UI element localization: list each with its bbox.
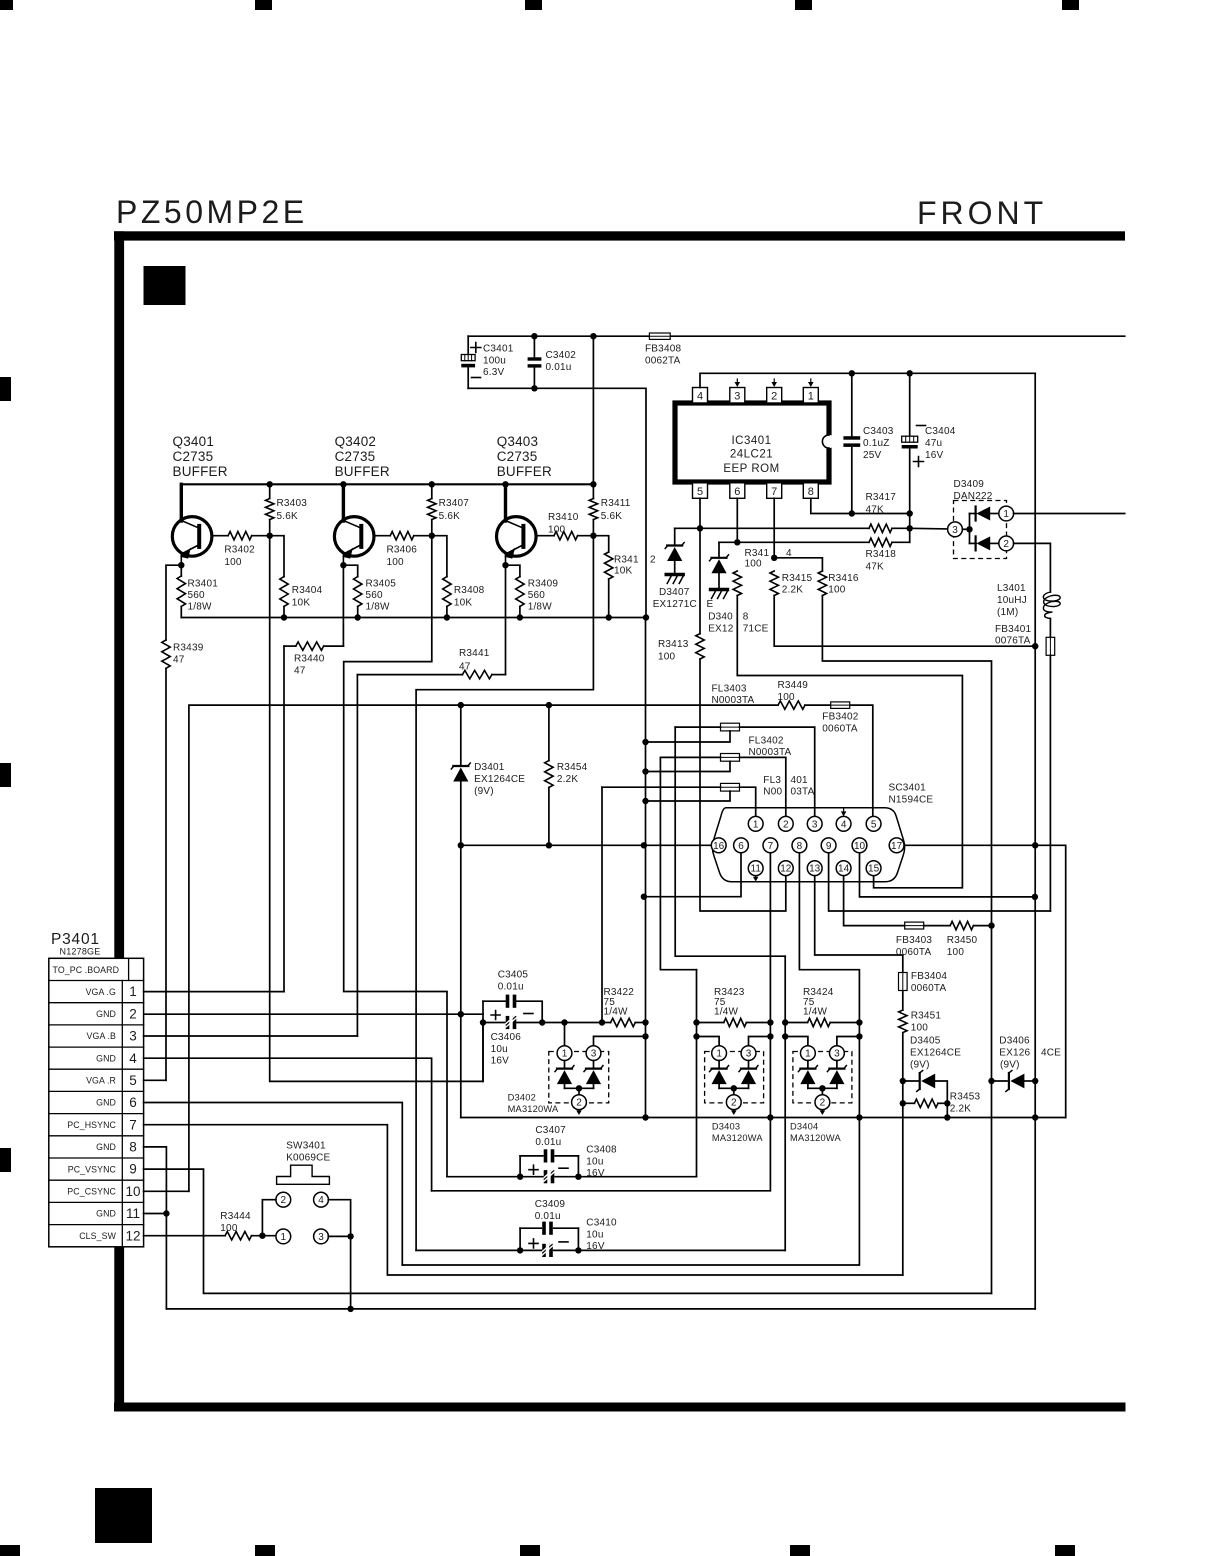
SC3401 pin 15 — [866, 861, 881, 876]
SC3401 pin 5 — [866, 816, 881, 831]
svg-text:C3405: C3405 — [498, 970, 529, 981]
SC3401 pin 9 — [821, 838, 836, 853]
wire P3401 pin4 GND — [144, 1058, 432, 1191]
ferrite bead FB3408 — [649, 333, 670, 339]
svg-text:14: 14 — [838, 864, 850, 875]
wire supply tap to Q rail — [592, 336, 594, 484]
svg-text:0062TA: 0062TA — [645, 355, 681, 366]
wire filter3-left to R3422 cell — [601, 787, 603, 1022]
resistor R3449 — [778, 701, 805, 709]
svg-text:5.6K: 5.6K — [601, 511, 623, 522]
svg-text:0.1uZ: 0.1uZ — [863, 438, 890, 449]
svg-text:10: 10 — [854, 841, 866, 852]
svg-text:R3409: R3409 — [528, 579, 559, 590]
wire SC pin8 to R3424 right — [402, 853, 859, 1265]
wire R3423 left vertical — [696, 970, 698, 1177]
svg-text:100: 100 — [658, 652, 676, 663]
svg-text:FL3402: FL3402 — [749, 736, 784, 747]
svg-text:10K: 10K — [292, 598, 311, 609]
svg-text:47: 47 — [294, 666, 306, 677]
svg-text:1: 1 — [562, 1049, 568, 1060]
SC3401 pin 13 — [807, 861, 822, 876]
wire R3441 to P3401 pin3 — [356, 675, 358, 1036]
svg-text:3: 3 — [812, 819, 818, 830]
svg-text:16V: 16V — [491, 1056, 510, 1067]
svg-text:1/4W: 1/4W — [714, 1007, 739, 1018]
svg-text:0.01u: 0.01u — [498, 982, 524, 993]
resistor R3411 — [592, 484, 594, 498]
svg-text:FL3403: FL3403 — [712, 684, 747, 695]
svg-text:VGA .B: VGA .B — [87, 1031, 116, 1041]
svg-text:R3453: R3453 — [950, 1092, 981, 1103]
connector P3401 table — [49, 958, 144, 1247]
svg-text:(9V): (9V) — [1000, 1060, 1020, 1071]
svg-text:03TA: 03TA — [791, 787, 815, 798]
resistor R3440 (VGA.G series) — [342, 565, 344, 646]
svg-text:3: 3 — [129, 1029, 137, 1044]
svg-text:1: 1 — [1003, 509, 1009, 520]
IC3401 bottom pin 7 — [767, 483, 782, 499]
svg-text:1/8W: 1/8W — [366, 602, 391, 613]
svg-text:6: 6 — [738, 841, 744, 852]
wire P3401 pin5 VGA.R — [144, 1079, 166, 1081]
svg-text:0.01u: 0.01u — [546, 362, 572, 373]
svg-text:CLS_SW: CLS_SW — [79, 1231, 116, 1241]
svg-text:2.2K: 2.2K — [557, 774, 579, 785]
svg-text:13: 13 — [809, 864, 821, 875]
svg-text:100: 100 — [745, 559, 763, 570]
wire FL filter2 left — [660, 756, 720, 758]
emitter node Q3402 — [340, 562, 346, 568]
svg-text:R3406: R3406 — [387, 545, 418, 556]
resistor R3401 — [180, 565, 182, 576]
svg-text:BUFFER: BUFFER — [335, 464, 390, 479]
svg-text:PC_CSYNC: PC_CSYNC — [67, 1187, 116, 1197]
wire R3413 to SC pin12 (wire B) — [700, 659, 786, 911]
bottom rail — [181, 617, 646, 619]
resistor R3412 — [593, 536, 608, 552]
svg-text:D3403: D3403 — [712, 1122, 740, 1132]
svg-text:R341: R341 — [745, 548, 770, 559]
svg-text:R3401: R3401 — [188, 579, 219, 590]
svg-text:2: 2 — [771, 391, 777, 403]
wire P3401 pin1 VGA.G — [144, 991, 284, 993]
wire C3407 row — [447, 1176, 543, 1178]
svg-text:4: 4 — [697, 391, 703, 403]
wire PC_CSYNC to SC pin5 — [189, 705, 778, 1191]
svg-text:3: 3 — [591, 1049, 597, 1060]
svg-text:R3454: R3454 — [557, 762, 588, 773]
filter FL3402 (top bead) — [721, 723, 740, 731]
svg-text:15: 15 — [868, 864, 880, 875]
svg-text:2: 2 — [650, 555, 656, 566]
svg-text:PC_HSYNC: PC_HSYNC — [67, 1120, 116, 1130]
wire SC pin7 down to gnd bus & P3401 pin4 gnd — [432, 853, 771, 1191]
svg-text:100: 100 — [911, 1022, 929, 1033]
svg-text:(1M): (1M) — [997, 607, 1018, 618]
wire IC pin5 net / SDA — [699, 498, 701, 528]
svg-text:R3441: R3441 — [459, 648, 490, 659]
diode array D3402 MA3120WA — [564, 1023, 566, 1046]
wire SC pin14 to FB3403 — [844, 876, 905, 926]
svg-text:2: 2 — [1003, 539, 1009, 550]
wire FL filter3 to SC pin1 — [740, 787, 756, 816]
svg-text:1: 1 — [753, 819, 759, 830]
zener diode D3407 — [674, 528, 676, 545]
node dots C3401/C3402 — [531, 333, 537, 339]
gnd bus vertical x=645.5 — [645, 618, 647, 1118]
IC3401 top pin 2 — [767, 388, 782, 404]
wire P3401 pin2 gnd feed — [144, 1013, 483, 1015]
svg-text:GND: GND — [96, 1209, 116, 1219]
SC3401 pin 1 — [748, 816, 763, 831]
svg-text:25V: 25V — [863, 450, 882, 461]
svg-text:GND: GND — [96, 1142, 116, 1152]
wire SC pin16 row — [461, 844, 711, 846]
SC3401 pin 16 — [711, 838, 726, 853]
svg-text:EEP ROM: EEP ROM — [723, 463, 779, 475]
capacitor C3405 — [483, 1000, 505, 1002]
SC3401 pin 11 — [748, 861, 763, 876]
wire SW3401 pin4/pin3 to gnd bus — [328, 1200, 350, 1309]
registration marks bottom edge — [95, 1488, 152, 1543]
svg-text:2: 2 — [731, 1098, 737, 1109]
svg-text:7: 7 — [129, 1117, 137, 1132]
svg-text:0076TA: 0076TA — [995, 636, 1031, 647]
svg-text:47u: 47u — [925, 438, 942, 449]
svg-text:0.01u: 0.01u — [535, 1137, 561, 1148]
gnd bus y=1117.5 — [461, 1117, 1066, 1119]
wire SC pin10 to gnd vertical — [860, 853, 1036, 897]
svg-text:47: 47 — [173, 655, 185, 666]
svg-text:R3402: R3402 — [224, 545, 255, 556]
wire D3409 pin1 to border — [1014, 513, 1125, 515]
wire FL filter2 to SC pin2 — [740, 757, 786, 816]
section marker square — [144, 266, 186, 305]
svg-text:560: 560 — [366, 590, 384, 601]
svg-text:100: 100 — [778, 692, 796, 703]
SC3401 pin 7 — [763, 838, 778, 853]
resistor R3403 — [269, 484, 271, 498]
svg-text:EX1271C: EX1271C — [653, 599, 697, 610]
wire Q3402 base node down to jog — [344, 536, 447, 1177]
svg-text:5: 5 — [129, 1073, 137, 1088]
svg-text:11: 11 — [126, 1206, 140, 1221]
svg-text:47K: 47K — [866, 562, 885, 573]
resistor R3402 — [212, 535, 228, 537]
gnd bottom bus — [166, 1308, 1035, 1310]
capacitor C3401 — [467, 336, 469, 354]
svg-text:1/8W: 1/8W — [188, 602, 213, 613]
svg-text:10u: 10u — [586, 1229, 603, 1240]
SC3401 pin 12 — [778, 861, 793, 876]
resistor R3450 — [950, 921, 973, 929]
svg-text:R3449: R3449 — [778, 680, 809, 691]
svg-text:0060TA: 0060TA — [822, 724, 858, 735]
svg-text:D3406: D3406 — [999, 1036, 1030, 1047]
svg-text:2.2K: 2.2K — [950, 1103, 972, 1114]
wire FL filter1 gnd — [646, 731, 731, 742]
svg-text:FL3: FL3 — [763, 775, 781, 786]
svg-text:C3404: C3404 — [925, 426, 956, 437]
svg-text:D3405: D3405 — [910, 1036, 941, 1047]
svg-text:100: 100 — [220, 1223, 238, 1234]
svg-text:R3415: R3415 — [782, 573, 813, 584]
svg-text:C3408: C3408 — [586, 1145, 617, 1156]
svg-text:100: 100 — [548, 525, 566, 536]
SC3401 pin 10 — [852, 838, 867, 853]
resistor R3422 — [602, 1022, 611, 1024]
wire C3409 row — [416, 1249, 541, 1251]
svg-text:C3401: C3401 — [483, 344, 514, 355]
svg-text:R3440: R3440 — [294, 654, 325, 665]
svg-text:0060TA: 0060TA — [911, 983, 947, 994]
wire filter1-left to R3424 cell — [675, 727, 785, 956]
wire P3401 pin7 PC_HSYNC — [144, 1125, 903, 1275]
capacitors C3409/C3410 — [519, 1228, 521, 1250]
inductor L3401 — [1043, 592, 1060, 619]
svg-text:7: 7 — [768, 841, 774, 852]
svg-text:GND: GND — [96, 1098, 116, 1108]
svg-text:47K: 47K — [866, 505, 885, 516]
capacitor C3403 — [851, 373, 853, 436]
svg-text:D3407: D3407 — [659, 587, 690, 598]
svg-text:GND: GND — [96, 1009, 116, 1019]
IC3401 bottom pin 6 — [730, 483, 745, 499]
svg-text:R3407: R3407 — [439, 498, 470, 509]
svg-text:EX1264CE: EX1264CE — [910, 1048, 961, 1059]
svg-text:DAN222: DAN222 — [954, 491, 993, 502]
svg-text:D340: D340 — [708, 612, 733, 623]
resistor R3407 — [431, 484, 433, 498]
svg-text:R3439: R3439 — [173, 643, 204, 654]
wire IC pin6 to SC pin15 — [737, 596, 962, 888]
svg-text:IC3401: IC3401 — [731, 435, 771, 447]
svg-text:R3408: R3408 — [454, 585, 485, 596]
resistor R3405 — [343, 565, 357, 576]
filter (middle bead) — [721, 754, 740, 762]
connector SC3401 outline — [712, 808, 904, 882]
resistor R3418 — [869, 538, 892, 546]
svg-text:BUFFER: BUFFER — [173, 464, 228, 479]
svg-text:EX126: EX126 — [999, 1048, 1030, 1059]
svg-text:C2735: C2735 — [173, 449, 214, 464]
svg-text:MA3120WA: MA3120WA — [508, 1104, 559, 1114]
svg-text:FB3408: FB3408 — [645, 344, 681, 355]
emitter node Q3403 — [502, 562, 508, 568]
svg-text:1: 1 — [716, 1049, 722, 1060]
wire R3415 bottom to gnd vertical — [774, 596, 1035, 647]
svg-text:7: 7 — [771, 486, 777, 498]
ferrite bead FB3403 — [905, 922, 924, 929]
resistor R3454 — [548, 705, 550, 761]
svg-text:12: 12 — [780, 864, 792, 875]
svg-text:R3451: R3451 — [911, 1011, 942, 1022]
svg-text:8: 8 — [808, 486, 814, 498]
svg-text:N0003TA: N0003TA — [749, 747, 792, 758]
svg-text:C3406: C3406 — [491, 1032, 522, 1043]
wire IC pin8 net — [811, 498, 910, 513]
svg-text:L3401: L3401 — [997, 583, 1026, 594]
svg-text:R3416: R3416 — [828, 573, 859, 584]
resistor R3416 — [818, 571, 826, 596]
svg-text:401: 401 — [791, 775, 809, 786]
svg-text:0.01u: 0.01u — [535, 1211, 561, 1222]
svg-text:6.3V: 6.3V — [483, 367, 505, 378]
svg-text:PZ50MP2E: PZ50MP2E — [116, 194, 308, 230]
svg-text:9: 9 — [826, 841, 832, 852]
wire supply top y=336 — [468, 335, 1124, 337]
svg-text:VGA .G: VGA .G — [86, 987, 116, 997]
wire R3440 to P3401 pin1 — [283, 646, 285, 991]
wire P3401 pin6 GND — [144, 1103, 403, 1266]
ferrite bead FB3402 — [831, 702, 850, 709]
capacitor C3406 — [483, 1022, 505, 1024]
SC3401 pin 3 — [807, 816, 822, 831]
wire IC pin7 net — [773, 498, 775, 558]
resistor R3414 — [733, 571, 741, 596]
svg-text:4: 4 — [129, 1051, 137, 1066]
emitter node Q3401 — [178, 562, 184, 568]
svg-text:10: 10 — [125, 1184, 140, 1199]
svg-text:9: 9 — [129, 1162, 137, 1177]
wire P3401 pin8 GND — [144, 1147, 167, 1309]
svg-text:N00: N00 — [763, 787, 782, 798]
op-amp/IC U IC3401 EEPROM body — [675, 403, 829, 482]
svg-text:4: 4 — [318, 1195, 324, 1206]
svg-text:SC3401: SC3401 — [889, 783, 927, 794]
svg-text:1: 1 — [808, 391, 814, 403]
svg-text:C3410: C3410 — [586, 1218, 617, 1229]
wire Q3401 base node down (to C3405 row) — [270, 536, 483, 1082]
svg-text:2: 2 — [820, 1098, 826, 1109]
svg-text:17: 17 — [891, 841, 903, 852]
registration marks top edge — [0, 0, 13, 10]
SC3401 pin 4 — [836, 816, 851, 831]
wire SC pin13 to FB3404 — [815, 876, 903, 972]
svg-text:560: 560 — [188, 590, 206, 601]
svg-text:6: 6 — [734, 486, 740, 498]
svg-text:5: 5 — [697, 486, 703, 498]
resistor R3415 — [770, 571, 778, 596]
D3409 diode 1 — [970, 513, 977, 515]
svg-text:EX12: EX12 — [708, 624, 734, 635]
svg-text:FRONT: FRONT — [917, 195, 1047, 231]
SC3401 pin 8 — [792, 838, 807, 853]
border left bar — [114, 231, 124, 1411]
wire FL filter1 left — [675, 726, 720, 728]
svg-text:N1278GE: N1278GE — [60, 947, 101, 957]
svg-text:GND: GND — [96, 1053, 116, 1063]
svg-text:K0069CE: K0069CE — [286, 1153, 330, 1164]
svg-text:PC_VSYNC: PC_VSYNC — [68, 1164, 117, 1174]
svg-text:8: 8 — [743, 612, 749, 623]
svg-text:10uHJ: 10uHJ — [997, 595, 1027, 606]
capacitor C3402 — [533, 336, 535, 357]
resistor R3410 — [536, 535, 554, 537]
svg-text:1/8W: 1/8W — [528, 602, 553, 613]
svg-text:MA3120WA: MA3120WA — [790, 1133, 841, 1143]
svg-text:D3404: D3404 — [790, 1122, 818, 1132]
wire P3401 pin12 CLS_SW + resistor R3444 — [144, 1235, 226, 1237]
wire P3401 pin9 PC_VSYNC — [144, 1169, 992, 1293]
svg-text:10u: 10u — [586, 1156, 603, 1167]
svg-text:C3407: C3407 — [535, 1125, 566, 1136]
svg-text:R3410: R3410 — [548, 512, 579, 523]
svg-text:1: 1 — [129, 984, 137, 999]
svg-text:3: 3 — [746, 1049, 752, 1060]
diode array D3403 MA3120WA — [697, 1037, 720, 1046]
svg-text:C2735: C2735 — [497, 449, 538, 464]
svg-text:2: 2 — [129, 1006, 137, 1021]
border top bar — [114, 231, 1125, 240]
svg-text:100: 100 — [947, 947, 965, 958]
svg-text:R3450: R3450 — [947, 935, 978, 946]
IC3401 bottom pin 5 — [693, 483, 708, 499]
IC3401 top pin 3 — [730, 388, 745, 404]
svg-text:8: 8 — [797, 841, 803, 852]
resistor R3404 — [270, 536, 284, 577]
capacitor C3404 — [909, 373, 911, 436]
svg-text:4: 4 — [841, 819, 847, 830]
wire Q3401 emitter to R3439 — [166, 565, 181, 640]
svg-text:R3404: R3404 — [292, 585, 323, 596]
wire SC pin9 — [829, 853, 1051, 911]
gnd vertical x=1035 — [1034, 373, 1036, 1309]
SC3401 pin 2 — [778, 816, 793, 831]
IC3401 top pin 4 — [693, 388, 708, 404]
svg-text:TO_PC .BOARD: TO_PC .BOARD — [53, 965, 120, 975]
wire P3401 pin11 GND — [144, 1213, 167, 1215]
svg-text:P3401: P3401 — [51, 931, 100, 948]
wire P3401 pin3 VGA.B — [144, 1035, 358, 1037]
SC3401 pin4 NC arrow — [843, 808, 845, 814]
svg-text:47: 47 — [459, 662, 471, 673]
svg-text:1/4W: 1/4W — [803, 1007, 828, 1018]
resistor R3409 — [506, 565, 520, 576]
svg-text:D3401: D3401 — [474, 762, 505, 773]
svg-text:2: 2 — [281, 1195, 287, 1206]
svg-text:2: 2 — [783, 819, 789, 830]
svg-text:(9V): (9V) — [910, 1060, 930, 1071]
svg-text:R3403: R3403 — [277, 498, 308, 509]
svg-text:0060TA: 0060TA — [896, 947, 932, 958]
svg-text:560: 560 — [528, 590, 546, 601]
resistor R3453 — [903, 1102, 915, 1104]
svg-text:R3405: R3405 — [366, 579, 397, 590]
capacitors C3407/C3408 — [519, 1156, 521, 1177]
svg-text:100: 100 — [387, 557, 405, 568]
svg-text:100: 100 — [224, 557, 242, 568]
wire Q3403 base node down to C3409 row — [416, 536, 593, 1251]
svg-text:SW3401: SW3401 — [286, 1141, 326, 1152]
wire IC pin6 net / SCL — [736, 498, 738, 542]
border bottom bar — [114, 1403, 1126, 1412]
svg-text:2.2K: 2.2K — [782, 585, 804, 596]
wire R3424 left vertical — [784, 956, 786, 1250]
SC3401 pin 6 — [734, 838, 749, 853]
svg-text:24LC21: 24LC21 — [730, 449, 773, 461]
svg-text:3: 3 — [834, 1049, 840, 1060]
wire FL filter2 gnd — [646, 761, 731, 771]
svg-text:R3418: R3418 — [866, 549, 897, 560]
svg-text:FB3403: FB3403 — [896, 935, 932, 946]
svg-text:Q3402: Q3402 — [335, 434, 377, 449]
svg-text:6: 6 — [129, 1095, 137, 1110]
top rail — [181, 483, 593, 485]
svg-text:R3411: R3411 — [601, 498, 631, 509]
svg-text:1/4W: 1/4W — [604, 1007, 629, 1018]
